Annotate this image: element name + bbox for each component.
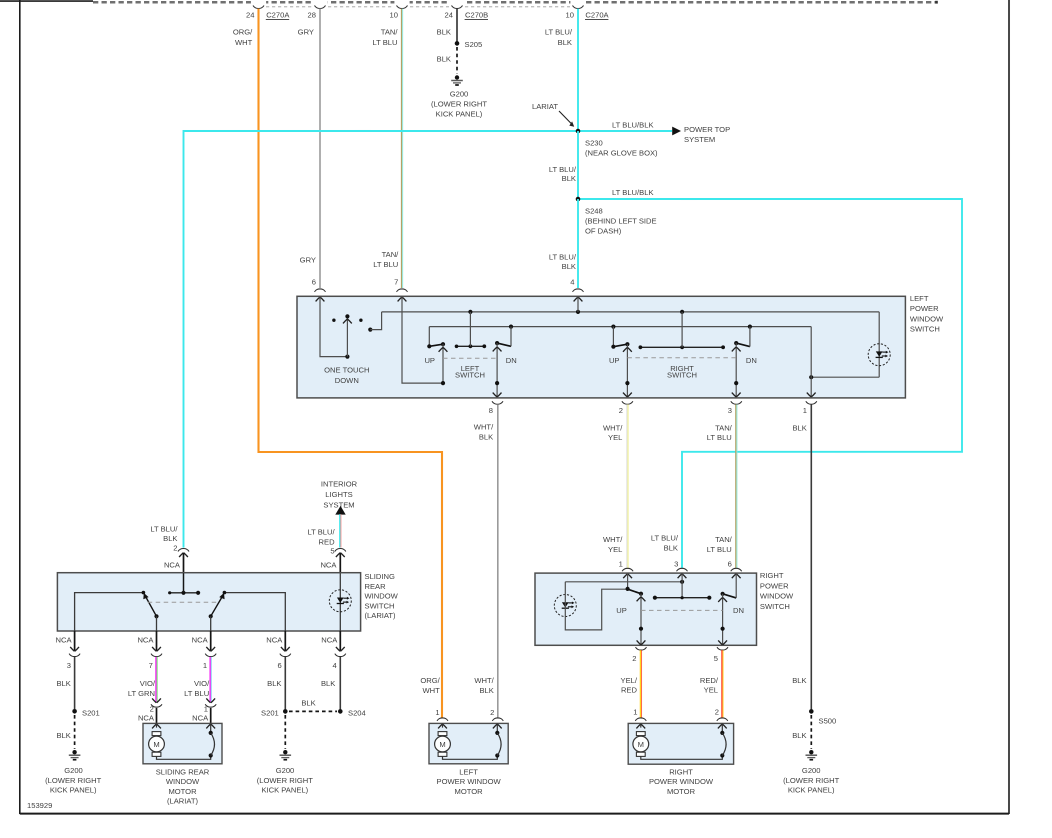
left switch DN output wire to pin 8 [493,343,502,397]
right switch top bus [565,574,684,598]
switch pin 8 connector [489,401,503,415]
svg-text:153929: 153929 [27,801,52,810]
svg-text:UP: UP [609,356,620,365]
splice S230 [576,129,658,158]
svg-text:BLK: BLK [437,27,451,36]
svg-text:1: 1 [619,560,623,569]
svg-text:LT BLU: LT BLU [373,260,398,269]
svg-text:6: 6 [312,277,316,286]
label ONE TOUCH DOWN [324,366,369,385]
svg-text:MOTOR: MOTOR [667,787,696,796]
svg-text:S248: S248 [585,206,603,215]
wire YEL/RED to right motor [621,650,642,717]
svg-text:6: 6 [728,560,732,569]
right power window switch box [535,571,794,645]
svg-text:2: 2 [150,705,154,714]
sliding switch pin 6 lead-out [266,631,291,670]
svg-text:BLK: BLK [479,432,493,441]
ground G200 (top) [431,75,487,118]
right switch UP pivot [611,327,615,349]
illumination lamp U1 in left switch [868,344,890,366]
page top dashed cut line [93,0,938,5]
svg-text:WHT/: WHT/ [474,422,494,431]
right switch travel dashed line [627,357,736,359]
svg-text:LT BLU/: LT BLU/ [651,534,679,543]
right motor M3 [633,723,722,759]
arrow to POWER TOP SYSTEM [672,125,730,144]
svg-text:6: 6 [277,661,281,670]
wire TAN/LT BLU pin 3 to right switch pin 6 [707,404,737,568]
right switch UP pivot [625,574,629,591]
sliding rear window motor box [143,723,222,805]
svg-text:C270B: C270B [465,11,488,20]
svg-text:NCA: NCA [192,635,209,644]
internal bus line A [382,312,880,377]
wire BLK dashed to ground (mid) [284,715,286,749]
svg-text:S201: S201 [261,708,279,717]
svg-text:BLK: BLK [792,731,806,740]
svg-text:BLK: BLK [301,698,315,707]
wire RED/YEL to right motor [700,650,723,717]
splice S204 [338,708,366,717]
pin 7 one touch feed [402,297,443,383]
label ORG/WHT at left motor [420,676,440,717]
svg-text:NCA: NCA [138,713,155,722]
svg-text:7: 7 [149,661,153,670]
sliding switch travel dashed line [148,601,217,603]
sliding switch right bus [223,591,286,631]
switch pin 4 connector [573,289,584,301]
label RIGHT SWITCH [609,356,757,380]
illumination lamp in sliding switch [329,573,351,631]
svg-text:WHT: WHT [423,686,441,695]
one touch down moving contact [343,314,352,358]
wire ORG/WHT from C270A [258,9,442,718]
wire LT BLU/BLK C270A to S230 [577,9,579,131]
svg-text:2: 2 [632,654,636,663]
splice S201 (right) [261,708,288,717]
inline connector at sliding switch pin 2 [178,549,189,557]
svg-text:POWER: POWER [760,581,789,590]
svg-text:LT BLU: LT BLU [707,433,732,442]
svg-text:4: 4 [332,661,336,670]
right switch DN contact arm [720,574,736,598]
label INTERIOR LIGHTS SYSTEM [321,480,358,510]
svg-text:WHT: WHT [235,38,253,47]
wire BLK sliding pin 6 to S201 [267,657,285,712]
left switch DN contact arm [495,327,511,347]
svg-text:SWITCH: SWITCH [760,602,790,611]
svg-text:RED/: RED/ [700,676,719,685]
svg-text:WINDOW: WINDOW [166,777,200,786]
svg-text:LT BLU/: LT BLU/ [549,253,577,262]
svg-text:POWER: POWER [910,304,939,313]
right switch DN contact arm [734,327,750,347]
left switch UP output wire [439,344,448,385]
wire NCA into sliding switch pin 2 [164,553,184,574]
svg-text:BLK: BLK [562,262,576,271]
label TAN/LT BLU above switch [373,250,399,287]
splice S201 (left) [72,708,99,717]
svg-text:3: 3 [67,661,71,670]
right switch DN output wire to pin 3 [732,343,741,397]
svg-text:VIO/: VIO/ [194,679,210,688]
svg-text:KICK PANEL): KICK PANEL) [261,786,308,795]
svg-text:24: 24 [445,10,453,19]
sliding rear window switch box [57,572,398,631]
svg-text:MOTOR: MOTOR [168,787,197,796]
wire LT BLU/BLK S230 to S248 [549,131,578,199]
svg-text:SWITCH: SWITCH [364,601,394,610]
svg-text:INTERIOR: INTERIOR [321,480,358,489]
ground G200 (bottom left) [45,750,101,795]
svg-text:2: 2 [715,707,719,716]
svg-text:WHT/: WHT/ [603,423,623,432]
svg-text:WHT/: WHT/ [603,535,623,544]
label LT BLU/BLK into right switch pin 3 [651,534,679,569]
svg-text:BLK: BLK [664,543,678,552]
svg-text:(LOWER RIGHT: (LOWER RIGHT [431,99,487,108]
wire BLK sliding pin 3 to S201 [56,657,74,712]
right motor commutator arc [718,723,727,757]
connector C270B pin 24 (BLK) [437,5,489,36]
svg-text:TAN/: TAN/ [381,27,399,36]
left switch travel dashed line [443,357,497,359]
switch pin 6 connector [315,289,326,301]
label GRY above switch [300,256,316,287]
one touch down output node [368,312,381,332]
svg-text:(LOWER RIGHT: (LOWER RIGHT [45,776,101,785]
svg-text:SYSTEM: SYSTEM [684,135,715,144]
wire LT BLU/RED to interior lights [307,514,340,555]
sliding switch left bus [75,591,146,631]
svg-text:SWITCH: SWITCH [455,371,485,380]
svg-text:NCA: NCA [56,635,73,644]
svg-text:WINDOW: WINDOW [760,592,794,601]
svg-text:LT BLU/BLK: LT BLU/BLK [612,121,654,130]
sliding motor M1 [149,723,211,759]
svg-text:10: 10 [390,10,398,19]
svg-text:LARIAT: LARIAT [532,102,558,111]
svg-text:NCA: NCA [192,713,209,722]
svg-text:NCA: NCA [320,560,337,569]
connector row thin dashed line [266,6,570,8]
switch pin 2 connector [619,401,633,415]
wire TAN/LT BLU [402,9,403,288]
svg-text:TAN/: TAN/ [382,250,400,259]
left motor pin 2 connector [492,718,503,721]
svg-text:S201: S201 [82,708,100,717]
svg-text:SLIDING: SLIDING [364,572,394,581]
svg-text:KICK PANEL): KICK PANEL) [436,109,483,118]
left power window switch box [297,294,944,398]
svg-text:28: 28 [308,10,316,19]
svg-text:POWER WINDOW: POWER WINDOW [437,777,502,786]
label LARIAT with arrow [532,102,574,127]
splice S500 [809,709,836,725]
svg-text:BLK: BLK [267,679,281,688]
connector C270A pin 10 (LT BLU/BLK) [545,6,610,48]
svg-text:BLK: BLK [558,38,572,47]
svg-text:BLK: BLK [562,174,576,183]
svg-text:YEL: YEL [608,433,622,442]
svg-text:S230: S230 [585,138,603,147]
svg-text:UP: UP [424,356,435,365]
sliding switch pin 4 lead-out [321,631,346,670]
svg-text:LT BLU: LT BLU [707,545,732,554]
svg-text:VIO/: VIO/ [140,679,156,688]
one touch down fixed contacts [332,318,362,321]
left motor M2 [435,723,498,759]
wire NCA into sliding switch pin 5 [320,553,340,574]
right switch pin 2 connector [632,647,646,663]
svg-text:1: 1 [633,707,637,716]
wire WHT/YEL pin 2 to right switch pin 1 [603,404,628,568]
right switch UP output wire to pin 2 [623,344,632,397]
svg-text:LT GRN: LT GRN [128,689,155,698]
svg-text:1: 1 [203,661,207,670]
svg-text:7: 7 [394,277,398,286]
left switch UP contact arm [429,342,445,346]
wire BLK dashed S205 to ground [437,47,457,74]
connector C270A pin 28 (GRY) [298,5,326,36]
svg-text:BLK: BLK [437,55,451,64]
svg-text:WHT/: WHT/ [474,676,494,685]
inline connector at sliding switch pin 5 [335,549,346,557]
svg-text:C270A: C270A [585,11,609,20]
wire GRY [319,9,321,288]
svg-text:LEFT: LEFT [459,767,478,776]
right switch lamp feed [554,582,627,630]
pin 4 feed into bus A [577,297,579,312]
lamp to pin 1 wiring [809,375,879,379]
svg-text:LT BLU/: LT BLU/ [307,528,335,537]
svg-text:BLK: BLK [163,534,177,543]
wire NCA into motor pin 1 [210,708,212,723]
svg-text:LEFT: LEFT [910,294,929,303]
svg-text:MOTOR: MOTOR [455,787,484,796]
right switch pin 3 connector [676,568,687,578]
svg-text:LT BLU/: LT BLU/ [549,165,577,174]
wire NCA into motor pin 2 [155,708,157,723]
sliding switch pin 3 lead-out [56,631,81,670]
svg-text:DN: DN [746,356,757,365]
wire LT BLU/BLK S230 branch to power top system [578,121,672,131]
svg-text:BLK: BLK [56,679,70,688]
svg-text:5: 5 [714,654,718,663]
sliding switch pin 7 lead-out [137,631,162,670]
page top solid line [0,0,93,2]
svg-text:ORG/: ORG/ [233,27,253,36]
sliding motor commutator arc [206,723,215,757]
page bottom border [20,813,1009,815]
right switch DN output to pin 5 [718,594,727,645]
sliding switch right contact arm [209,593,225,619]
svg-text:S205: S205 [465,40,483,49]
svg-text:RIGHT: RIGHT [669,767,693,776]
svg-text:ORG/: ORG/ [420,676,440,685]
right power window motor box [628,723,733,795]
svg-text:KICK PANEL): KICK PANEL) [50,786,97,795]
svg-text:UP: UP [616,606,627,615]
svg-text:SYSTEM: SYSTEM [323,500,354,509]
svg-text:1: 1 [803,406,807,415]
right switch common contacts [653,596,712,600]
label LT BLU/BLK at sliding switch pin 2 [150,524,178,552]
svg-text:S500: S500 [818,716,836,725]
left motor pin 1 connector [437,718,448,721]
sliding switch common contacts [168,573,200,595]
one touch down feed from pin 6 [320,297,347,357]
svg-text:YEL/: YEL/ [621,676,638,685]
left switch common contacts [455,312,487,348]
svg-text:NCA: NCA [137,635,154,644]
svg-text:DN: DN [506,356,517,365]
right switch UP contact arm [613,342,629,347]
connector C270A pin 24 (ORG/WHT) [233,5,290,47]
right switch pin 6 connector [731,568,742,578]
pin 1 output wire [807,327,816,398]
svg-text:ONE TOUCH: ONE TOUCH [324,366,369,375]
svg-text:LT BLU/BLK: LT BLU/BLK [612,188,654,197]
right motor pin 2 connector [717,718,728,721]
splice S205 [455,40,483,49]
svg-text:LT BLU: LT BLU [184,689,209,698]
svg-text:1: 1 [204,705,208,714]
sliding switch left arm output to pin 7 [155,616,157,631]
sliding switch pin 1 lead-out [192,631,217,670]
svg-text:G200: G200 [276,766,295,775]
svg-text:5: 5 [330,546,334,555]
svg-text:NCA: NCA [321,635,338,644]
svg-text:KICK PANEL): KICK PANEL) [788,786,835,795]
svg-text:NCA: NCA [164,560,181,569]
internal bus line B [429,326,811,328]
svg-text:POWER WINDOW: POWER WINDOW [649,777,714,786]
arrow to interior lights system [335,506,345,515]
sliding switch right arm output to pin 1 [210,616,212,631]
svg-text:3: 3 [674,560,678,569]
right switch pin 1 connector [622,568,633,578]
right switch pin 5 connector [714,647,728,663]
svg-text:2: 2 [490,708,494,717]
svg-text:REAR: REAR [364,582,386,591]
svg-text:(LARIAT): (LARIAT) [167,797,199,806]
switch pin 1 connector [803,401,817,415]
svg-text:LIGHTS: LIGHTS [325,490,352,499]
svg-text:NCA: NCA [266,635,283,644]
svg-text:LT BLU: LT BLU [372,38,397,47]
svg-text:LT BLU/: LT BLU/ [545,27,573,36]
connector C270A pin 10 (TAN/LT BLU) [372,5,407,47]
svg-text:BLK: BLK [792,423,806,432]
right motor pin 1 connector [635,718,646,721]
svg-text:GRY: GRY [300,256,316,265]
wire VIO/LT BLU pin 1 to motor [184,657,211,703]
svg-text:WINDOW: WINDOW [910,314,944,323]
ground G200 (bottom mid) [257,750,313,795]
right switch travel dashed line [641,609,723,611]
svg-text:DOWN: DOWN [335,376,359,385]
diagram number 153929 [27,801,52,810]
inline connector motor pin 1 [192,698,216,722]
wire BLK dashed S201 to S204 [289,698,337,711]
svg-text:C270A: C270A [266,11,290,20]
svg-text:G200: G200 [450,89,469,98]
svg-text:1: 1 [435,708,439,717]
svg-text:3: 3 [728,406,732,415]
wire LT BLU/BLK S248 to switch pin 4 [549,199,578,288]
page left border [19,0,21,814]
wire LT BLU/BLK S248 branch to right switch [578,188,962,568]
svg-text:SWITCH: SWITCH [667,371,697,380]
svg-text:(BEHIND LEFT SIDE: (BEHIND LEFT SIDE [585,216,657,225]
svg-text:(NEAR GLOVE BOX): (NEAR GLOVE BOX) [585,148,658,157]
svg-text:24: 24 [246,10,254,19]
svg-text:8: 8 [489,406,493,415]
svg-text:S204: S204 [348,708,366,717]
svg-text:(LOWER RIGHT: (LOWER RIGHT [257,776,313,785]
svg-text:BLK: BLK [479,686,493,695]
svg-text:2: 2 [619,406,623,415]
svg-text:G200: G200 [802,766,821,775]
switch pin 7 connector [397,289,408,301]
svg-text:OF DASH): OF DASH) [585,226,622,235]
wire VIO/LT GRN pin 7 to motor [128,657,157,703]
wire BLK to S205 [456,9,458,44]
svg-text:POWER TOP: POWER TOP [684,125,730,134]
page right border [1008,0,1010,814]
left switch UP pivot [427,327,431,349]
switch pin 3 connector [728,401,742,415]
svg-text:BLK: BLK [56,731,70,740]
splice S248 [576,197,657,236]
wire LT BLU/BLK S230 branch left [183,131,578,548]
label LEFT SWITCH [424,356,516,380]
right switch UP contact arm [628,589,643,596]
wire BLK dashed to ground (left) [56,715,74,749]
svg-text:2: 2 [173,543,177,552]
left motor commutator arc [493,723,502,757]
left power window motor box [429,723,508,795]
sliding switch left contact arm [143,593,158,619]
wire WHT/BLK pin 8 to left motor [474,404,498,717]
svg-text:BLK: BLK [792,676,806,685]
label UP DN right switch [616,606,744,615]
right switch UP output to pin 2 [637,594,646,645]
right switch common contacts [639,312,726,349]
inline connector motor pin 2 [138,698,162,722]
svg-text:SLIDING REAR: SLIDING REAR [156,767,210,776]
svg-text:(LOWER RIGHT: (LOWER RIGHT [783,776,839,785]
svg-text:RED: RED [621,686,638,695]
wire BLK sliding pin 4 to S204 [321,657,340,712]
svg-text:BLK: BLK [321,679,335,688]
junction dots on bus B [509,324,752,328]
junction dots on bus A [468,310,684,314]
svg-text:RIGHT: RIGHT [760,571,784,580]
svg-text:TAN/: TAN/ [715,423,733,432]
svg-text:TAN/: TAN/ [715,535,733,544]
svg-text:SWITCH: SWITCH [910,325,940,334]
svg-text:G200: G200 [64,766,83,775]
wire BLK pin 1 to S500 [792,404,811,711]
svg-text:(LARIAT): (LARIAT) [364,611,396,620]
svg-text:RED: RED [319,537,336,546]
svg-text:DN: DN [733,606,744,615]
svg-text:10: 10 [566,10,574,19]
svg-text:WINDOW: WINDOW [364,592,398,601]
